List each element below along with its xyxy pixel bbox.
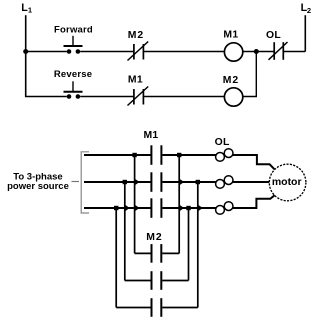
wire drop phase1-right to U1 [178,155,180,253]
wire U2 run [125,280,189,282]
svg-text:2: 2 [307,6,311,15]
svg-text:M2: M2 [146,232,162,243]
crossover hop v_l1 x phase3 [135,205,140,212]
wire rung2 contact to M2 coil [144,96,224,98]
crossover hop v_l1 x phase2 [135,179,140,186]
node phase1 left tap [132,153,136,157]
svg-text:M1: M1 [223,30,238,41]
crossover hop v_r3 x phase3 [198,205,203,212]
wire drop phase3-right to U2 [188,208,190,281]
wire L2 rail [304,15,306,51]
motor M [269,164,306,201]
bracket 3-phase source [81,152,89,213]
contact OL NC (control) [269,42,288,60]
wire phase2 line side [84,181,151,183]
svg-text:Reverse: Reverse [54,69,92,80]
label To 3-phase power source [7,172,69,192]
node phase2 right tap [196,180,200,184]
wire phase2 OL to motor [232,181,269,183]
wire rung1 contact to M1 coil [144,51,224,53]
wire L1 rail [25,15,27,96]
svg-text:Forward: Forward [54,24,93,35]
coil M2 [224,88,242,106]
wire M2 coil up to rung1 junction [243,52,256,97]
crossover hop v_l2 x phase3 [125,205,130,212]
pushbutton Reverse (N.O.) [64,81,83,98]
wire drop phase3-left to U3 [115,208,117,308]
svg-text:power source: power source [7,181,69,192]
wire coil M1 to OL contact [243,51,274,53]
contact M1 phase2 [151,172,161,192]
wire rung2 button to M1 contact [80,96,133,98]
wire U1 run [135,252,180,254]
node junction rung1-rail [23,49,28,54]
crossover hop v_r1 x phase2 [179,179,184,186]
node phase2 left tap [123,180,127,184]
svg-text:motor: motor [272,176,302,188]
wire phase2 load side [162,181,216,183]
contact M1 phase3 [151,198,161,218]
svg-text:OL: OL [266,30,281,41]
pushbutton Forward (N.O.) [64,36,83,54]
wire drop phase1-left to U1 [134,155,136,253]
overload heater phase1 [216,149,233,162]
contact M2 phase C [152,298,162,317]
contact M2 NC (rung1) [128,42,149,61]
wire label tick [72,181,80,183]
overload heater phase3 [216,202,233,215]
svg-text:1: 1 [28,6,33,15]
svg-text:M1: M1 [143,130,158,141]
wire phase1 OL to motor [232,155,274,169]
node phase3 left tap [114,206,118,210]
node junction rung1/rung2 tie [254,49,259,54]
wire U3 run [116,307,198,309]
svg-text:M1: M1 [128,75,143,86]
svg-text:M2: M2 [223,75,239,86]
contact M2 phase A [152,244,162,263]
wire rung1 segment rail to Forward button [26,51,67,53]
wire phase3 OL to motor [232,195,275,208]
svg-text:M2: M2 [128,30,144,41]
overload heater phase2 [216,176,233,189]
wire OL to L2 rail [284,51,305,53]
node phase3 right tap [186,206,190,210]
contact M1 NC (rung2) [128,87,149,106]
wire drop phase2-left to U2 [124,182,126,281]
wire phase1 load side [162,154,216,156]
wire rung1 button to M2 contact [80,51,133,53]
node phase1 right tap [177,153,181,157]
wire drop phase2-right to U3 [197,182,199,308]
crossover hop v_r1 x phase3 [179,205,184,212]
coil M1 [224,43,242,61]
wire phase3 load side [162,207,216,209]
node L1 label [21,2,33,15]
wire phase1 line side [84,154,151,156]
svg-text:OL: OL [215,137,230,148]
contact M2 phase B [152,271,162,290]
node L2 label [301,2,312,15]
wire phase3 line side [84,207,151,209]
wire rung2 segment rail to Reverse button [25,96,67,98]
contact M1 phase1 [151,145,161,165]
